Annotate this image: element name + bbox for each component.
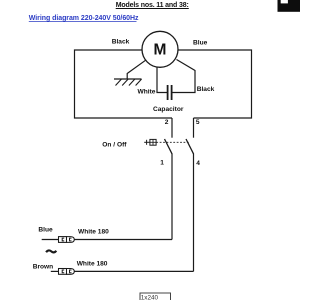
- svg-text:2: 2: [165, 119, 169, 126]
- svg-text:4: 4: [196, 160, 200, 167]
- svg-text:Black: Black: [112, 38, 130, 45]
- svg-text:Brown: Brown: [33, 263, 54, 270]
- svg-text:White 180: White 180: [77, 261, 108, 268]
- svg-text:1x240: 1x240: [141, 294, 159, 300]
- svg-text:5: 5: [196, 119, 200, 126]
- svg-text:On / Off: On / Off: [102, 142, 127, 149]
- svg-text:Blue: Blue: [38, 227, 53, 234]
- svg-text:1: 1: [160, 160, 164, 167]
- svg-text:Models nos. 11 and 38:: Models nos. 11 and 38:: [116, 2, 189, 9]
- svg-text:M: M: [154, 42, 167, 59]
- svg-text:Blue: Blue: [193, 40, 208, 47]
- svg-text:White: White: [138, 89, 156, 96]
- svg-text:Black: Black: [197, 86, 215, 93]
- svg-text:White 180: White 180: [78, 228, 109, 235]
- svg-text:Wiring diagram 220-240V 50/60H: Wiring diagram 220-240V 50/60Hz: [29, 15, 139, 22]
- svg-text:Capacitor: Capacitor: [153, 106, 184, 113]
